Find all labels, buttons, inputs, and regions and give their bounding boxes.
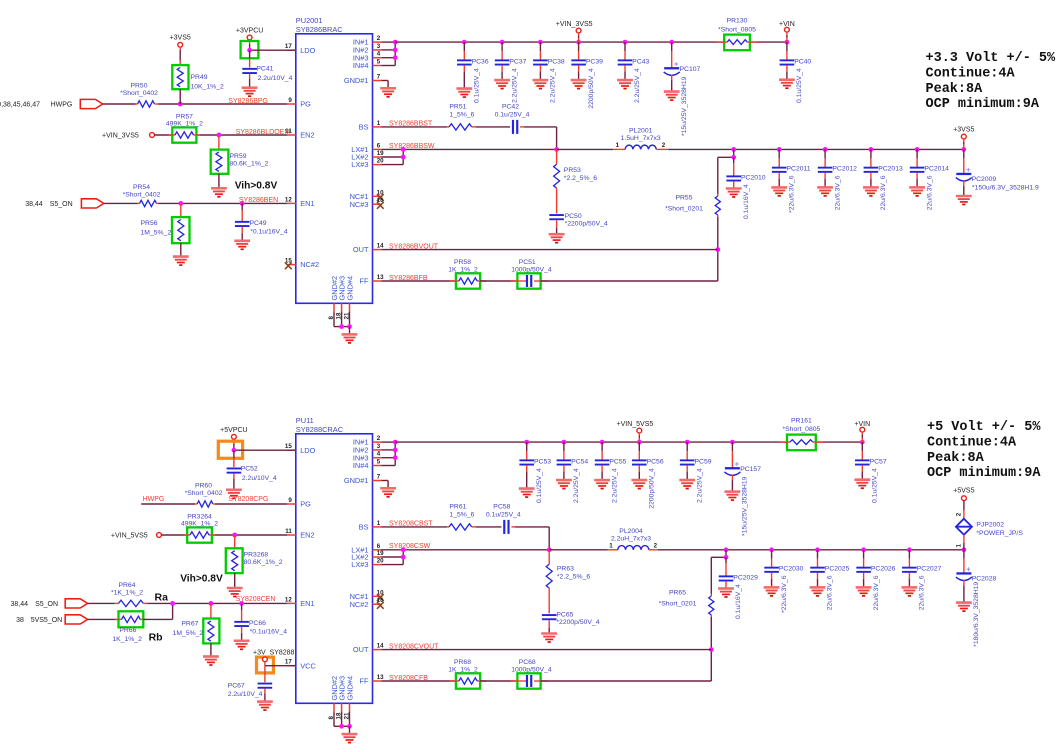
capacitor PC2025 xyxy=(810,550,850,610)
junction input rail xyxy=(730,440,735,445)
power +VIN_3VS5 small circle xyxy=(102,133,154,140)
resistor PR51 1_5%_6 xyxy=(447,104,476,130)
junction LDO xyxy=(232,448,237,453)
resistor PR56 1M_5%_2 xyxy=(141,203,190,256)
svg-text:17: 17 xyxy=(285,43,292,50)
net SY8286BLDOEM xyxy=(236,129,291,136)
svg-text:499K_1%_2: 499K_1%_2 xyxy=(166,121,203,128)
capacitor PC39 xyxy=(571,42,603,109)
svg-text:+VIN_5VS5: +VIN_5VS5 xyxy=(617,421,654,428)
svg-text:7: 7 xyxy=(377,474,381,481)
capacitor PC2029 xyxy=(718,557,758,619)
svg-text:EN1: EN1 xyxy=(300,599,314,608)
svg-text:4: 4 xyxy=(377,451,381,458)
net HWPG label xyxy=(143,496,165,503)
svg-text:Continue:4A: Continue:4A xyxy=(927,436,1017,451)
capacitor PC2014 xyxy=(909,149,949,210)
svg-text:PC39: PC39 xyxy=(586,58,603,65)
capacitor PC107 polarized xyxy=(664,42,701,136)
junction input rail xyxy=(562,440,567,445)
svg-text:PC51: PC51 xyxy=(519,259,536,266)
net SY8208CSW xyxy=(389,543,431,550)
junction LDO xyxy=(247,48,252,53)
net SY8286BPG xyxy=(228,98,268,105)
svg-text:PU2001: PU2001 xyxy=(296,16,323,25)
pin 1 BS of U PU11 xyxy=(359,520,382,532)
svg-text:PU11: PU11 xyxy=(296,416,314,425)
junction GND#3 xyxy=(339,324,344,329)
svg-text:PC2030: PC2030 xyxy=(779,566,804,573)
svg-text:PR54: PR54 xyxy=(133,184,150,191)
capacitor PC2027 xyxy=(902,550,942,610)
svg-text:1M_5%_2: 1M_5%_2 xyxy=(173,630,204,637)
svg-text:+VIN_5VS5: +VIN_5VS5 xyxy=(111,533,148,540)
junction IN bus top xyxy=(393,440,398,445)
svg-text:EN2: EN2 xyxy=(300,131,314,140)
svg-text:FF: FF xyxy=(359,277,369,286)
capacitor PC50 xyxy=(549,213,608,243)
svg-text:PR51: PR51 xyxy=(449,104,466,111)
svg-text:2.2uH_7x7x3: 2.2uH_7x7x3 xyxy=(611,535,651,542)
svg-text:PC50: PC50 xyxy=(565,213,582,220)
capacitor PC2009 polarized xyxy=(956,149,1039,204)
junction input rail xyxy=(500,40,505,45)
pin 20 LX#3 of U PU11 xyxy=(351,558,384,570)
svg-text:HWPG: HWPG xyxy=(143,496,165,503)
label Ra xyxy=(155,591,169,603)
svg-text:+5 Volt +/- 5%: +5 Volt +/- 5% xyxy=(927,420,1041,435)
svg-text:PC59: PC59 xyxy=(695,458,712,465)
svg-text:*Short_0201: *Short_0201 xyxy=(665,206,703,213)
svg-text:VCC: VCC xyxy=(300,661,316,670)
svg-text:1: 1 xyxy=(377,520,381,527)
svg-text:20: 20 xyxy=(377,158,384,165)
svg-text:+3VS5: +3VS5 xyxy=(170,35,191,42)
svg-text:PC43: PC43 xyxy=(632,58,649,65)
svg-text:NC#2: NC#2 xyxy=(300,260,319,269)
wire PC58 to SW rail elbow xyxy=(515,527,549,550)
wire BS pin to PR61 xyxy=(381,526,447,528)
pin 11 EN2 of U PU11 xyxy=(285,528,314,540)
pin 5 IN#4 of U PU11 xyxy=(353,459,381,471)
resistor PR57 499K_1%_2 xyxy=(166,114,203,143)
svg-text:PR57: PR57 xyxy=(176,114,193,121)
wire FF to PR68 xyxy=(381,680,456,682)
svg-text:PR161: PR161 xyxy=(791,417,812,424)
capacitor PC54 xyxy=(556,442,588,503)
svg-text:*22u/6.3V_6: *22u/6.3V_6 xyxy=(788,175,795,213)
svg-text:EN1: EN1 xyxy=(300,199,314,208)
svg-text:PC55: PC55 xyxy=(609,458,626,465)
svg-text:22u/6.3V_6: 22u/6.3V_6 xyxy=(880,175,887,210)
junction input rail xyxy=(600,440,605,445)
svg-text:6: 6 xyxy=(377,142,381,149)
svg-text:1M_5%_2: 1M_5%_2 xyxy=(141,230,172,237)
label Rb xyxy=(149,631,163,643)
svg-text:PC37: PC37 xyxy=(509,58,526,65)
wire SW output rail xyxy=(668,148,964,150)
svg-text:2200p/50V_4: 2200p/50V_4 xyxy=(588,68,595,109)
svg-text:10K_1%_2: 10K_1%_2 xyxy=(191,83,224,90)
pin 10 NC#1 of U PU11 xyxy=(350,589,385,601)
svg-text:2200p/50V_4: 2200p/50V_4 xyxy=(649,468,656,509)
wire SW output rail xyxy=(658,549,964,551)
resistor PR54 *Short_0402 xyxy=(123,184,161,207)
svg-text:14: 14 xyxy=(377,643,384,650)
inductor PL2001 1.5uH_7x7x3 xyxy=(557,128,669,150)
wire PR51 to PC42 xyxy=(476,126,510,128)
junction OUT/sense xyxy=(715,247,720,252)
svg-text:*Short_0201: *Short_0201 xyxy=(659,601,697,608)
power +VIN xyxy=(854,421,870,442)
pin 15 LDO of U PU11 xyxy=(285,443,316,455)
junction output rail xyxy=(823,147,828,152)
power +3VPCU xyxy=(236,27,263,50)
junction input rail xyxy=(524,440,529,445)
pin 3 IN#2 of U PU2001 xyxy=(353,43,381,55)
IC PU2001 SY8286BRAC body xyxy=(296,16,373,303)
svg-text:22u/6.3V_6: 22u/6.3V_6 xyxy=(919,575,926,610)
junction input rail xyxy=(576,40,581,45)
junction IN#2 xyxy=(393,48,398,53)
wire +VIN_5VS5 input rail xyxy=(395,441,862,443)
svg-text:HWPG: HWPG xyxy=(51,101,73,108)
net SY8208CFB xyxy=(389,675,428,682)
svg-text:PC58: PC58 xyxy=(493,504,510,511)
junction sense branch xyxy=(724,555,729,560)
svg-text:22u/6.3V_6: 22u/6.3V_6 xyxy=(827,575,834,610)
net SY8286BBSW xyxy=(389,143,435,150)
svg-text:OUT: OUT xyxy=(353,645,369,654)
svg-text:1.5uH_7x7x3: 1.5uH_7x7x3 xyxy=(621,135,661,142)
svg-text:PR65: PR65 xyxy=(669,589,686,596)
wire output sense branch xyxy=(711,550,726,681)
svg-text:20: 20 xyxy=(377,558,384,565)
svg-text:*15u/25V_3528H19: *15u/25V_3528H19 xyxy=(681,76,688,136)
svg-text:PC2026: PC2026 xyxy=(871,566,896,573)
svg-text:3: 3 xyxy=(377,43,381,50)
junction output rail xyxy=(724,547,729,552)
svg-text:PC2009: PC2009 xyxy=(972,176,997,183)
net SY8208CVOUT xyxy=(389,643,439,650)
resistor PR53 *2.2_5%_6 xyxy=(554,149,598,213)
svg-text:*Short_0402: *Short_0402 xyxy=(120,90,158,97)
svg-text:PC57: PC57 xyxy=(870,458,887,465)
svg-text:PR55: PR55 xyxy=(675,194,692,201)
capacitor PC55 xyxy=(594,442,626,503)
svg-text:Peak:8A: Peak:8A xyxy=(927,451,985,466)
svg-text:PR66: PR66 xyxy=(119,627,136,634)
wire GND pins to ground xyxy=(334,311,350,326)
svg-text:19: 19 xyxy=(377,550,384,557)
power +5VPCU xyxy=(220,427,247,450)
svg-text:PC65: PC65 xyxy=(556,611,573,618)
svg-text:1: 1 xyxy=(616,142,620,149)
svg-text:PR59: PR59 xyxy=(230,153,247,160)
svg-text:PC2014: PC2014 xyxy=(924,166,949,173)
junction input rail xyxy=(462,40,467,45)
svg-text:+3VPCU: +3VPCU xyxy=(236,27,263,34)
junction EN2/PR3268 xyxy=(232,533,237,538)
svg-text:PC52: PC52 xyxy=(241,465,258,472)
wire S5_ON to EN1 pin xyxy=(104,202,287,204)
wire GND pins to ground xyxy=(334,711,350,726)
pin 16 NC#3 of U PU2001 xyxy=(350,197,385,209)
svg-text:15: 15 xyxy=(285,443,292,450)
ground at GND#1 pin 7 xyxy=(380,81,396,97)
svg-text:PR67: PR67 xyxy=(181,621,198,628)
junction LX bus top xyxy=(401,147,406,152)
pin 14 OUT of U PU2001 xyxy=(353,243,384,255)
capacitor PC56 xyxy=(631,442,663,509)
power +VIN_5VS5 small circle xyxy=(111,533,162,540)
capacitor PC49 xyxy=(234,203,288,249)
svg-text:9: 9 xyxy=(288,97,292,104)
wire OUT net xyxy=(381,249,718,251)
svg-text:OUT: OUT xyxy=(353,245,369,254)
junction EN2/PR59 xyxy=(217,133,222,138)
resistor PR130 *Short_0805 xyxy=(717,17,758,50)
net SY8286BVOUT xyxy=(389,243,439,250)
svg-text:0.1u/25V_4: 0.1u/25V_4 xyxy=(474,68,481,103)
svg-text:1000p/50V_4: 1000p/50V_4 xyxy=(511,267,552,274)
capacitor PC2012 xyxy=(817,149,857,210)
svg-text:PC68: PC68 xyxy=(519,659,536,666)
port S5_ON input xyxy=(25,199,104,208)
svg-text:PR68: PR68 xyxy=(454,659,471,666)
svg-text:2: 2 xyxy=(654,542,658,549)
resistor PR61 1_5%_6 xyxy=(447,504,476,530)
ground below PR67 xyxy=(203,657,219,666)
capacitor PC40 xyxy=(779,42,811,103)
svg-text:Rb: Rb xyxy=(149,631,163,643)
pin 13 FF of U PU2001 xyxy=(359,274,384,286)
svg-text:6: 6 xyxy=(377,543,381,550)
capacitor PC42 xyxy=(495,104,530,134)
svg-text:S5_ON: S5_ON xyxy=(35,601,58,608)
jumper box at LDO (green) xyxy=(241,41,259,58)
resistor PR60 *Short_0402 xyxy=(185,483,223,508)
svg-text:SY8208CEN: SY8208CEN xyxy=(236,596,276,603)
svg-text:*150u/6.3V_3528H1.9: *150u/6.3V_3528H1.9 xyxy=(972,185,1039,192)
svg-text:+3VS5: +3VS5 xyxy=(953,126,974,133)
svg-text:OCP minimum:9A: OCP minimum:9A xyxy=(926,97,1040,112)
resistor PR67 1M_5%_2 xyxy=(173,603,220,656)
svg-text:BS: BS xyxy=(359,523,369,532)
svg-text:PR3264: PR3264 xyxy=(187,514,212,521)
port 5VS5_ON input xyxy=(16,615,88,624)
junction output rail xyxy=(769,547,774,552)
svg-text:PR3268: PR3268 xyxy=(244,552,269,559)
pin 6 LX#1 of U PU11 xyxy=(351,543,381,555)
pin 11 EN2 of U PU2001 xyxy=(285,128,314,140)
net SY8286BEN xyxy=(239,197,278,204)
svg-text:SY8286BRAC: SY8286BRAC xyxy=(296,25,343,34)
wire LDO net xyxy=(250,49,296,51)
wire PC51 to sense branch xyxy=(541,280,718,282)
svg-text:PG: PG xyxy=(300,500,311,509)
svg-text:NC#2: NC#2 xyxy=(350,600,369,609)
svg-text:PC107: PC107 xyxy=(680,66,701,73)
svg-text:2.2u/10V_4: 2.2u/10V_4 xyxy=(228,691,263,698)
svg-text:+3V_SY8288: +3V_SY8288 xyxy=(253,649,295,656)
svg-text:+3.3 Volt +/- 5%: +3.3 Volt +/- 5% xyxy=(926,51,1057,66)
svg-text:2: 2 xyxy=(662,142,666,149)
svg-text:*1K_1%_2: *1K_1%_2 xyxy=(111,589,143,596)
junction IN#3 xyxy=(393,455,398,460)
junction output rail xyxy=(777,147,782,152)
svg-text:SY8286BEN: SY8286BEN xyxy=(239,197,278,204)
svg-text:BS: BS xyxy=(359,123,369,132)
junction output rail xyxy=(962,547,967,552)
pin 4 IN#3 of U PU11 xyxy=(353,451,381,463)
pin 8 GND of U PU11 xyxy=(328,676,339,720)
junction EN1/PR67 xyxy=(209,601,214,606)
svg-text:1K_1%_2: 1K_1%_2 xyxy=(112,636,142,643)
svg-text:0.1u/25V_4: 0.1u/25V_4 xyxy=(796,68,803,103)
svg-text:*2200p/50V_4: *2200p/50V_4 xyxy=(565,220,608,227)
capacitor PC38 xyxy=(533,42,565,103)
svg-text:PR49: PR49 xyxy=(191,74,208,81)
wire PC42 to SW rail elbow xyxy=(524,127,557,149)
pin 7 GND#1 of U PU11 xyxy=(344,474,381,486)
junction output rail xyxy=(869,147,874,152)
wire FF to PR58 xyxy=(381,280,456,282)
svg-text:Continue:4A: Continue:4A xyxy=(926,67,1016,82)
wire PR66 to EN1 junction xyxy=(143,603,172,619)
svg-text:38,44: 38,44 xyxy=(11,601,29,608)
label +5 Volt block xyxy=(927,420,1041,481)
capacitor PC52 xyxy=(226,450,277,498)
pin 3 IN#2 of U PU11 xyxy=(353,443,381,455)
svg-text:0.1u/25V_4: 0.1u/25V_4 xyxy=(536,468,543,503)
svg-text:Ra: Ra xyxy=(155,591,169,603)
IC PU11 SY8288CRAC body xyxy=(296,416,373,703)
svg-text:0.1u/25V_4: 0.1u/25V_4 xyxy=(495,112,530,119)
svg-text:PR56: PR56 xyxy=(141,220,158,227)
svg-text:PG: PG xyxy=(300,100,311,109)
svg-text:14: 14 xyxy=(377,243,384,250)
svg-text:*Short_0402: *Short_0402 xyxy=(185,490,223,497)
svg-text:PC42: PC42 xyxy=(502,104,519,111)
svg-text:0,38,45,46,47: 0,38,45,46,47 xyxy=(0,101,40,108)
power +3V_SY8288 xyxy=(253,649,295,672)
resistor PR58 1K_1%_2 xyxy=(448,259,486,289)
junction input rail xyxy=(785,40,790,45)
power +3VS5 xyxy=(170,35,191,66)
svg-text:+5VS5: +5VS5 xyxy=(953,488,974,495)
svg-text:PC38: PC38 xyxy=(548,58,565,65)
svg-text:PR53: PR53 xyxy=(564,167,581,174)
pin 19 LX#2 of U PU2001 xyxy=(351,150,384,162)
svg-text:OCP minimum:9A: OCP minimum:9A xyxy=(927,466,1041,481)
svg-text:5: 5 xyxy=(377,59,381,66)
svg-text:2.2u/10V_4: 2.2u/10V_4 xyxy=(242,475,277,482)
pin 18 GND of U PU11 xyxy=(335,676,346,720)
svg-text:12: 12 xyxy=(285,596,292,603)
svg-text:PR64: PR64 xyxy=(118,582,135,589)
svg-text:12: 12 xyxy=(285,196,292,203)
svg-text:*2200p/50V_4: *2200p/50V_4 xyxy=(556,619,599,626)
svg-text:PC2010: PC2010 xyxy=(741,174,766,181)
capacitor PC2010 xyxy=(726,157,766,219)
junction LX#2 xyxy=(401,155,406,160)
svg-text:PC49: PC49 xyxy=(250,220,267,227)
svg-text:PC2025: PC2025 xyxy=(825,566,850,573)
capacitor PC57 xyxy=(854,442,886,503)
resistor PR55 *Short_0201 xyxy=(665,194,720,217)
junction EN1/PC66 xyxy=(239,601,244,606)
svg-text:*0.1u/16V_4: *0.1u/16V_4 xyxy=(250,628,288,635)
resistor PR66 1K_1%_2 xyxy=(112,611,146,643)
svg-text:SY8286BLDOEM: SY8286BLDOEM xyxy=(236,129,291,136)
junction IN#2 xyxy=(393,448,398,453)
svg-text:SY8208CPG: SY8208CPG xyxy=(228,496,268,503)
junction SW/PR53 xyxy=(554,147,559,152)
svg-text:2.2u/10V_4: 2.2u/10V_4 xyxy=(258,75,293,82)
capacitor PC67 xyxy=(228,666,273,710)
svg-text:PR58: PR58 xyxy=(454,259,471,266)
pin 8 GND of U PU2001 xyxy=(328,276,339,320)
svg-text:LX#3: LX#3 xyxy=(351,560,368,569)
inductor PL2004 2.2uH_7x7x3 xyxy=(549,528,658,550)
junction input rail xyxy=(637,440,642,445)
junction input rail xyxy=(685,440,690,445)
ground below PR59 xyxy=(211,188,227,197)
svg-text:22u/6.3V_6: 22u/6.3V_6 xyxy=(873,575,880,610)
capacitor PC2026 xyxy=(856,550,896,610)
svg-text:2.2u/25V_4: 2.2u/25V_4 xyxy=(634,68,641,103)
svg-text:GND#1: GND#1 xyxy=(344,476,369,485)
power +3VS5 output xyxy=(953,126,974,149)
net SY8208CEN xyxy=(236,596,276,603)
svg-text:PC54: PC54 xyxy=(571,458,588,465)
svg-text:19: 19 xyxy=(377,150,384,157)
wire output sense branch xyxy=(718,149,734,281)
svg-text:5: 5 xyxy=(377,459,381,466)
svg-text:PL2004: PL2004 xyxy=(619,528,643,535)
svg-text:+VIN_3VS5: +VIN_3VS5 xyxy=(102,133,139,140)
wire 5VS5_ON to PR66 xyxy=(88,618,119,620)
capacitor PC2030 xyxy=(764,550,804,613)
svg-text:PC2011: PC2011 xyxy=(787,166,811,173)
svg-text:4: 4 xyxy=(377,51,381,58)
wire +VIN_3VS5 input rail xyxy=(395,41,787,43)
svg-text:PR50: PR50 xyxy=(130,83,147,90)
svg-text:2.2u/25V_4: 2.2u/25V_4 xyxy=(573,468,580,503)
svg-text:22u/6.3V_6: 22u/6.3V_6 xyxy=(834,175,841,210)
svg-text:*180u/6.3V_3528H19: *180u/6.3V_3528H19 xyxy=(973,582,980,647)
capacitor PC37 xyxy=(494,42,526,103)
pin 4 IN#3 of U PU2001 xyxy=(353,51,381,63)
svg-text:+VIN_3VS5: +VIN_3VS5 xyxy=(556,21,593,28)
junction EN1/PC49 xyxy=(240,201,245,206)
junction input rail xyxy=(623,40,628,45)
capacitor PC2028 polarized xyxy=(956,550,997,647)
svg-text:PR130: PR130 xyxy=(727,17,748,24)
net SY8286BFB xyxy=(389,275,428,282)
svg-text:0.1u/25V_4: 0.1u/25V_4 xyxy=(872,468,879,503)
svg-text:PC2013: PC2013 xyxy=(878,166,903,173)
svg-text:2: 2 xyxy=(955,512,962,516)
junction EN1/Ra-Rb xyxy=(170,601,175,606)
capacitor PC65 xyxy=(541,611,599,642)
junction LX#2 xyxy=(401,555,406,560)
svg-text:PC2012: PC2012 xyxy=(832,166,857,173)
pin 17 VCC of U PU11 xyxy=(285,659,317,671)
svg-text:*POWER_JP/S: *POWER_JP/S xyxy=(976,530,1023,537)
pin 12 EN1 of U PU2001 xyxy=(285,196,315,208)
